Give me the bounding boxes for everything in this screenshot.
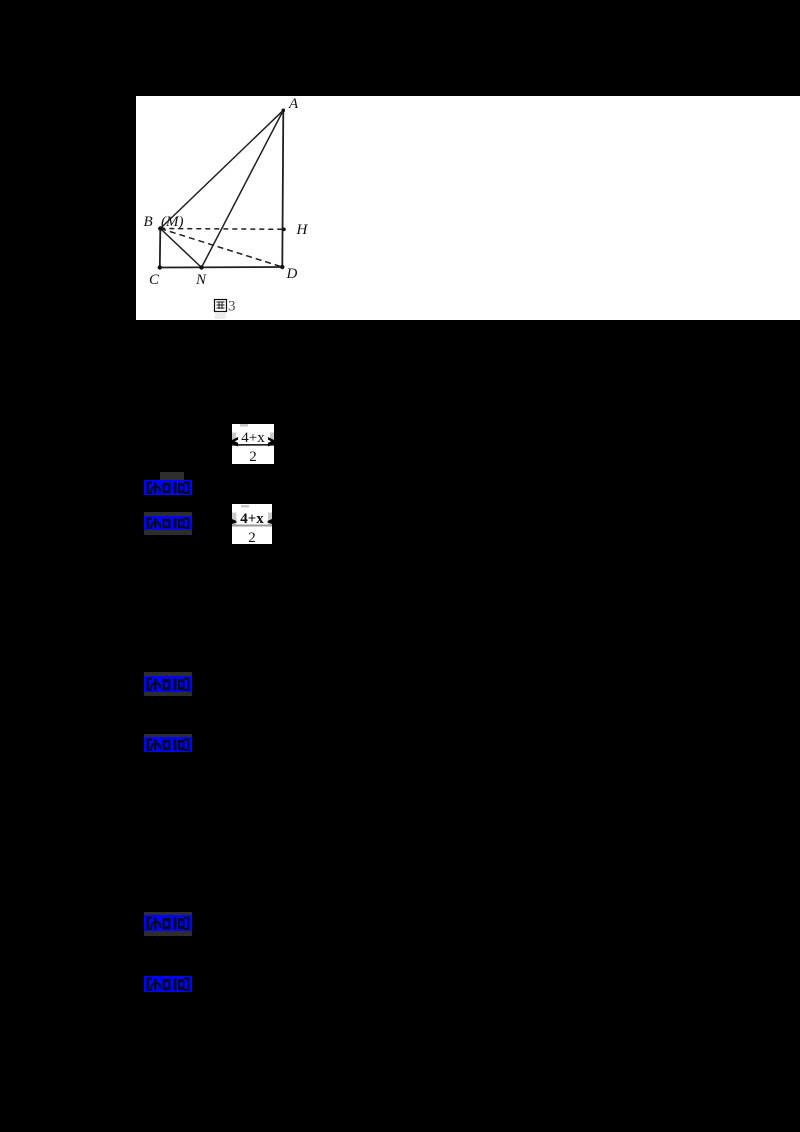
figure panel (white)	[136, 96, 800, 320]
svg-text:D: D	[286, 266, 298, 282]
highlight box 4	[144, 737, 192, 752]
handle top	[240, 424, 248, 427]
svg-text:N: N	[195, 272, 207, 288]
highlight box 3	[144, 676, 192, 692]
wire CD	[160, 266, 282, 269]
fraction image 1	[232, 424, 274, 464]
highlight outer 3	[144, 672, 192, 696]
svg-text:4+x: 4+x	[241, 430, 265, 446]
handle right	[268, 513, 272, 525]
caption 图3	[215, 299, 236, 315]
svg-text:A: A	[288, 96, 299, 112]
wire AD vertical	[282, 110, 283, 267]
handle top	[241, 505, 249, 508]
svg-text:H: H	[296, 222, 309, 238]
highlight box 5	[144, 915, 192, 931]
fraction image 2	[232, 504, 272, 544]
svg-text:3: 3	[228, 299, 236, 315]
wire BD dashed	[160, 229, 282, 268]
node B	[158, 226, 162, 230]
node A	[282, 109, 286, 113]
node H	[282, 228, 286, 232]
highlight tab 4	[144, 734, 192, 737]
node D	[280, 265, 284, 269]
svg-text:2: 2	[249, 449, 257, 464]
handle left	[232, 433, 236, 444]
svg-text:B: B	[144, 214, 153, 230]
arrow right	[268, 437, 274, 447]
wire AB	[160, 110, 283, 228]
wire AN	[202, 110, 284, 267]
arrow left	[232, 519, 237, 524]
highlight box 1	[144, 480, 192, 495]
arrow left	[232, 437, 238, 447]
highlight box 6	[144, 976, 192, 992]
highlight box 2	[144, 516, 192, 530]
svg-text:(M): (M)	[161, 214, 184, 230]
handle right	[270, 433, 274, 444]
caption shadow	[215, 313, 226, 319]
fraction bar	[232, 525, 272, 527]
highlight outer 5	[144, 912, 192, 936]
svg-text:2: 2	[248, 530, 256, 544]
node C	[158, 265, 162, 269]
node N	[199, 265, 203, 269]
handle left	[232, 513, 237, 525]
svg-text:C: C	[149, 272, 160, 288]
wire BN	[160, 229, 201, 268]
highlight outer 2	[144, 512, 192, 535]
arrow right	[268, 519, 273, 524]
wire BC	[159, 229, 162, 268]
highlight tab 1	[160, 472, 184, 480]
wire BH dashed	[160, 228, 284, 231]
fraction bar	[232, 444, 274, 446]
